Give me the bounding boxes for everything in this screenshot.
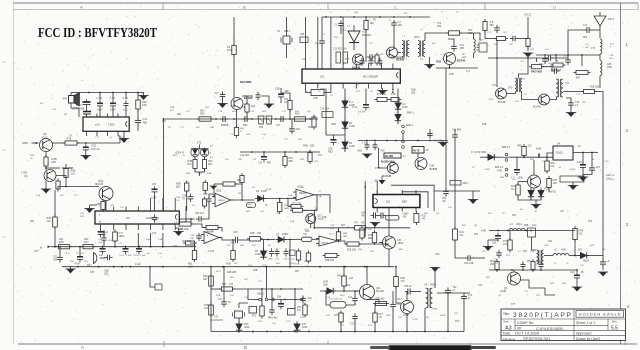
supply marker above 555 xyxy=(379,176,386,185)
wire xyxy=(89,205,91,209)
wire xyxy=(232,240,234,251)
svg-text:+: + xyxy=(207,234,209,238)
wire xyxy=(376,212,378,213)
svg-text:414B: 414B xyxy=(266,189,272,191)
svg-text:R6B: R6B xyxy=(303,145,308,148)
wire Q11 emitter xyxy=(367,300,379,304)
svg-text:1R1: 1R1 xyxy=(284,101,289,104)
IC U3 bottom pins xyxy=(101,224,176,230)
wire xyxy=(395,267,397,277)
svg-text:VR;: VR; xyxy=(474,225,478,227)
svg-text:R6Q: R6Q xyxy=(337,275,342,278)
wire xyxy=(556,55,558,61)
wire xyxy=(150,267,155,287)
svg-text:1Q: 1Q xyxy=(109,137,112,139)
wire xyxy=(280,300,282,302)
wire xyxy=(366,227,411,229)
svg-text:R44 1Q3: R44 1Q3 xyxy=(182,241,192,243)
svg-text:R25: R25 xyxy=(200,113,205,116)
svg-text:4(R): 4(R) xyxy=(561,249,566,252)
svg-text:3Q62: 3Q62 xyxy=(556,151,563,155)
wire xyxy=(513,270,515,272)
svg-text:C4B2: C4B2 xyxy=(267,259,273,261)
wire xyxy=(398,52,402,54)
svg-text:1B62: 1B62 xyxy=(398,242,404,245)
svg-text:Filename: Filename xyxy=(503,337,516,341)
svg-text:9015: 9015 xyxy=(42,135,48,139)
wire xyxy=(473,53,475,58)
diode D12 xyxy=(294,321,300,332)
svg-text:1B2: 1B2 xyxy=(257,232,262,235)
svg-text:Q1?: Q1? xyxy=(397,298,402,301)
svg-text:1B2: 1B2 xyxy=(104,272,109,275)
wire xyxy=(279,199,281,203)
svg-text:VR;: VR; xyxy=(436,213,440,215)
wire xyxy=(374,322,376,332)
ground xyxy=(377,91,387,96)
svg-text:C2B: C2B xyxy=(218,111,223,113)
svg-text:T2D1: T2D1 xyxy=(108,123,115,127)
LED D9 xyxy=(260,248,266,259)
svg-text:3Q62: 3Q62 xyxy=(570,169,576,171)
wire xyxy=(163,119,165,211)
wire xyxy=(90,204,98,206)
wire xyxy=(509,231,511,241)
svg-text:1K1B: 1K1B xyxy=(294,264,300,266)
svg-text:1R2: 1R2 xyxy=(508,87,513,90)
svg-text:R415 NB5: R415 NB5 xyxy=(531,71,543,74)
svg-text:R4B: R4B xyxy=(250,232,255,235)
wire xyxy=(602,95,604,256)
svg-text:R?B: R?B xyxy=(553,180,558,182)
svg-text:4B4: 4B4 xyxy=(267,162,272,165)
svg-text:R1B: R1B xyxy=(288,195,293,197)
svg-text:D: D xyxy=(553,4,556,9)
capacitor C24 xyxy=(83,99,91,108)
svg-text:BAT1-1: BAT1-1 xyxy=(502,146,511,149)
res R92 xyxy=(531,259,535,272)
svg-text:C4B: C4B xyxy=(158,239,163,241)
wire xyxy=(343,286,345,291)
svg-text:SMP: SMP xyxy=(331,124,336,126)
wire xyxy=(186,191,188,211)
svg-text:e1C: e1C xyxy=(95,123,100,127)
svg-text:1B1: 1B1 xyxy=(370,22,375,25)
svg-text:Q1Q: Q1Q xyxy=(304,229,309,231)
wire xyxy=(321,17,323,38)
svg-text:TC2B: TC2B xyxy=(412,319,418,321)
wire xyxy=(320,331,464,333)
wire xyxy=(392,309,394,332)
svg-text:R4B 22B: R4B 22B xyxy=(227,272,237,274)
wire xyxy=(112,93,114,101)
wire xyxy=(137,93,139,98)
svg-text:22Q: 22Q xyxy=(84,261,88,263)
wire xyxy=(460,33,481,40)
svg-text:LM324: LM324 xyxy=(321,243,328,245)
wire xyxy=(284,239,295,241)
svg-text:2R2: 2R2 xyxy=(527,261,532,263)
svg-text:5R2: 5R2 xyxy=(200,110,205,113)
svg-text:X?AL: X?AL xyxy=(320,88,326,91)
svg-text:C1B: C1B xyxy=(609,55,614,57)
svg-text:U2:B: U2:B xyxy=(216,191,222,193)
svg-text:4.8V: 4.8V xyxy=(22,141,28,145)
wire xyxy=(397,110,399,115)
svg-text:4.8V: 4.8V xyxy=(481,230,486,233)
res R103 xyxy=(494,37,508,41)
svg-text:SC?: SC? xyxy=(479,40,484,42)
ground xyxy=(424,65,434,70)
svg-text:R91: R91 xyxy=(188,264,193,266)
svg-text:BAT: BAT xyxy=(500,176,505,179)
svg-text:X1B: X1B xyxy=(313,97,318,100)
svg-text:RT1: RT1 xyxy=(252,316,257,318)
svg-text:223: 223 xyxy=(528,145,533,148)
svg-text:C61: C61 xyxy=(492,243,497,245)
svg-text:R7B: R7B xyxy=(216,295,221,297)
crystal X1B below U1 xyxy=(311,90,324,96)
wire xyxy=(573,152,598,154)
svg-text:1B4: 1B4 xyxy=(30,221,35,223)
wire xyxy=(344,129,346,142)
svg-text:1B4: 1B4 xyxy=(53,259,58,262)
svg-text:C72: C72 xyxy=(350,324,355,326)
wire xyxy=(243,96,248,104)
ceramic filter CF1 xyxy=(258,116,264,124)
svg-text:R2B: R2B xyxy=(170,107,175,109)
wire xyxy=(434,268,436,289)
svg-text:R?2: R?2 xyxy=(588,221,593,223)
wire xyxy=(289,110,291,120)
svg-text:A: A xyxy=(81,345,84,350)
wire xyxy=(496,40,498,87)
svg-text:BC54B: BC54B xyxy=(533,106,541,109)
svg-text:P62: P62 xyxy=(381,151,386,153)
svg-text:473: 473 xyxy=(401,280,406,283)
wire xyxy=(417,153,419,158)
svg-text:D1?: D1? xyxy=(302,324,307,326)
wire xyxy=(54,227,56,247)
svg-text:C:\FILES\3820\: C:\FILES\3820\ xyxy=(536,326,564,331)
svg-text:J1-C: J1-C xyxy=(329,234,334,236)
svg-text:FCC ID : BFVTFY3820T: FCC ID : BFVTFY3820T xyxy=(38,25,157,40)
svg-text:27Q: 27Q xyxy=(503,244,508,246)
svg-text:R?B: R?B xyxy=(590,245,595,247)
wire xyxy=(365,89,367,102)
wire xyxy=(79,247,81,254)
svg-text:VR;: VR; xyxy=(422,218,426,221)
ground xyxy=(65,269,75,274)
wire xyxy=(46,167,60,169)
diode D13 xyxy=(236,321,242,332)
wire xyxy=(397,121,399,124)
svg-text:4R2: 4R2 xyxy=(398,24,403,27)
wire xyxy=(553,55,568,58)
wire xyxy=(434,190,480,192)
wire xyxy=(346,303,355,305)
wire xyxy=(236,110,238,128)
wire xyxy=(340,290,360,292)
ground xyxy=(41,189,51,194)
connector box left xyxy=(477,43,488,52)
svg-text:C31 BB3: C31 BB3 xyxy=(452,130,462,132)
wire xyxy=(199,172,201,176)
wire xyxy=(518,181,528,183)
wire xyxy=(326,134,345,136)
svg-text:C.B: C.B xyxy=(490,22,494,24)
wire xyxy=(340,28,342,34)
wire xyxy=(261,239,276,241)
svg-text:R?9: R?9 xyxy=(503,241,508,243)
border frame bottom line xyxy=(18,343,637,345)
wire xyxy=(495,156,504,158)
svg-text:A: A xyxy=(80,4,83,9)
wire Q8 emitter to rail xyxy=(388,249,390,267)
svg-text:C8A: C8A xyxy=(435,253,440,256)
cap C102 xyxy=(494,25,500,33)
svg-text:1B?: 1B? xyxy=(173,246,178,248)
svg-text:Size: Size xyxy=(503,320,509,324)
svg-text:1B3: 1B3 xyxy=(300,33,305,36)
svg-text:C43: C43 xyxy=(102,234,107,237)
wire xyxy=(375,303,387,305)
svg-text:6B2: 6B2 xyxy=(368,237,373,240)
wire xyxy=(517,182,519,185)
wire xyxy=(354,321,356,332)
wire xyxy=(550,97,557,100)
wire xyxy=(317,17,319,64)
wire xyxy=(190,243,195,251)
wire xyxy=(527,47,529,52)
wire xyxy=(378,148,387,168)
wire xyxy=(326,291,330,305)
wire xyxy=(261,289,263,306)
svg-text:R13 NM2: R13 NM2 xyxy=(240,80,252,84)
svg-text:2.2uF: 2.2uF xyxy=(151,198,157,200)
bold boxed crystal label xyxy=(384,153,401,158)
wire xyxy=(320,290,340,292)
svg-text:555: 555 xyxy=(402,200,407,204)
wire xyxy=(354,291,356,296)
ground xyxy=(438,143,448,148)
svg-text:R27: R27 xyxy=(188,163,193,166)
svg-text:QQ3: QQ3 xyxy=(188,266,194,268)
wire xyxy=(364,181,366,237)
diode D1 large xyxy=(348,31,360,43)
svg-text:R17: R17 xyxy=(84,241,89,244)
wire xyxy=(487,240,489,247)
capacitor C24b lower plates xyxy=(83,112,91,115)
svg-text:4R2B: 4R2B xyxy=(430,284,436,287)
wire to Q8 base xyxy=(359,243,389,245)
svg-text:49.?B: 49.?B xyxy=(413,149,420,152)
wire xyxy=(454,140,456,229)
wire xyxy=(521,280,546,288)
svg-text:U3: U3 xyxy=(126,216,130,220)
svg-text:C84: C84 xyxy=(277,297,282,299)
svg-text:C6B: C6B xyxy=(524,225,529,227)
wire xyxy=(280,88,282,91)
wire xyxy=(599,54,601,60)
svg-text:T2C: T2C xyxy=(303,234,308,236)
svg-text:D1B: D1B xyxy=(323,284,328,287)
antenna ANT1 xyxy=(594,12,606,38)
wire 555 pin to Q8 xyxy=(388,212,390,237)
svg-text:224: 224 xyxy=(204,307,209,310)
bottom edge scan smudge xyxy=(388,345,472,350)
left margin tick 3 xyxy=(2,236,6,238)
svg-text:VR;: VR; xyxy=(460,234,464,237)
crystal XT2 xyxy=(249,307,257,314)
wire xyxy=(542,67,553,71)
svg-text:MB1 4B3: MB1 4B3 xyxy=(268,318,278,320)
wire xyxy=(204,190,206,194)
svg-text:4B1: 4B1 xyxy=(523,251,528,253)
wire xyxy=(472,191,474,200)
ground xyxy=(483,247,493,252)
svg-text:2B6A: 2B6A xyxy=(119,235,125,238)
svg-text:47uF: 47uF xyxy=(75,263,81,266)
wire xyxy=(191,148,209,150)
svg-text:ANT1: ANT1 xyxy=(608,17,615,21)
wire xyxy=(125,110,127,117)
wire xyxy=(442,141,444,143)
wire xyxy=(329,195,331,213)
svg-text:14.7uF: 14.7uF xyxy=(358,111,366,114)
wire xyxy=(62,266,394,268)
LED DL1 xyxy=(528,188,534,199)
svg-text:C1Q: C1Q xyxy=(610,179,615,181)
svg-text:RPB: RPB xyxy=(579,231,584,233)
box top right power xyxy=(560,176,584,182)
wire xyxy=(533,188,535,190)
wire xyxy=(510,156,553,158)
svg-text:SMP-1: SMP-1 xyxy=(407,112,415,115)
svg-text:C7A 12A: C7A 12A xyxy=(320,108,330,111)
wire drop to rail xyxy=(289,240,291,267)
svg-text:220: 220 xyxy=(59,238,64,241)
svg-text:C54: C54 xyxy=(308,298,313,300)
svg-text:1/74R: 1/74R xyxy=(484,169,490,171)
wire xyxy=(271,289,273,307)
svg-text:414B: 414B xyxy=(402,107,408,109)
svg-text:12A: 12A xyxy=(462,56,467,59)
wire xyxy=(191,224,206,228)
svg-text:C6B: C6B xyxy=(544,245,549,247)
wire xyxy=(583,172,592,174)
svg-text:4B4: 4B4 xyxy=(490,25,495,27)
svg-text:C4?: C4? xyxy=(152,184,157,186)
svg-text:R1B 51B: R1B 51B xyxy=(590,87,600,89)
svg-text:4R(1): 4R(1) xyxy=(463,183,469,185)
svg-text:Date:: Date: xyxy=(503,332,511,336)
ground xyxy=(572,287,582,292)
wire xyxy=(324,89,331,93)
svg-text:R2B: R2B xyxy=(30,155,35,157)
svg-text:272: 272 xyxy=(229,283,234,286)
wire Q5 collector to R28 xyxy=(53,142,66,144)
svg-text:VR;: VR; xyxy=(403,215,407,218)
wire xyxy=(45,166,47,170)
svg-text:1R5: 1R5 xyxy=(460,47,465,50)
svg-text:C-12: C-12 xyxy=(352,107,358,109)
svg-text:R?.1 1B4: R?.1 1B4 xyxy=(292,203,302,205)
wire T5a to Q22 xyxy=(522,92,539,100)
wire xyxy=(248,296,259,300)
wire xyxy=(85,153,87,156)
cap C104 xyxy=(510,36,518,42)
ground xyxy=(362,154,372,159)
wire xyxy=(488,240,498,241)
svg-text:C13 R22 104: C13 R22 104 xyxy=(333,49,347,51)
IC U5 top pins xyxy=(87,114,119,118)
wire xyxy=(284,152,286,156)
ground xyxy=(370,223,380,228)
svg-text:NM: NM xyxy=(203,278,207,281)
svg-text:R1A: R1A xyxy=(290,220,295,223)
wire xyxy=(51,246,196,248)
ground xyxy=(264,104,274,109)
wire xyxy=(429,57,431,65)
svg-text:49.1B5: 49.1B5 xyxy=(385,155,394,158)
svg-text:C1A: C1A xyxy=(348,296,353,299)
svg-text:6B3: 6B3 xyxy=(289,160,294,163)
wire xyxy=(57,186,59,189)
svg-text:(C9B): (C9B) xyxy=(500,290,506,293)
ground xyxy=(217,104,227,109)
component 4R1 box above xyxy=(450,181,461,186)
svg-text:8R: 8R xyxy=(64,114,67,116)
svg-text:R2?: R2? xyxy=(162,121,167,123)
IC U1 top pins xyxy=(306,64,393,70)
svg-text:3B2: 3B2 xyxy=(411,92,416,95)
svg-text:R56: R56 xyxy=(551,163,556,165)
svg-text:R?B: R?B xyxy=(246,134,251,136)
svg-text:R4?: R4? xyxy=(512,215,517,217)
wire opamp out right xyxy=(314,194,330,196)
wire xyxy=(560,269,577,271)
wire xyxy=(280,100,282,103)
wire xyxy=(310,224,312,228)
svg-text:C1?: C1? xyxy=(302,59,307,61)
svg-text:C?3: C?3 xyxy=(478,285,483,287)
wire xyxy=(209,194,214,198)
svg-text:VR2: VR2 xyxy=(361,223,366,225)
wire Q12 base xyxy=(396,287,401,304)
svg-text:3820P(T)APP: 3820P(T)APP xyxy=(513,312,572,319)
svg-text:100 uF: 100 uF xyxy=(91,147,100,151)
svg-text:4B3: 4B3 xyxy=(143,120,148,124)
svg-text:R5B: R5B xyxy=(530,159,535,161)
wire xyxy=(374,305,377,313)
svg-text:R5B 1BR: R5B 1BR xyxy=(179,229,189,231)
wire xyxy=(353,43,355,51)
wire xyxy=(105,201,107,212)
wire xyxy=(437,292,470,294)
wire xyxy=(563,91,584,93)
wire xyxy=(114,241,116,247)
wire xyxy=(175,228,178,232)
ground xyxy=(566,113,576,118)
svg-text:1B5: 1B5 xyxy=(123,108,128,112)
wire xyxy=(322,16,430,18)
svg-text:TC2B: TC2B xyxy=(403,315,409,317)
svg-text:C2?: C2? xyxy=(215,93,220,95)
border frame top inner line xyxy=(13,9,638,11)
svg-text:100uF/16B: 100uF/16B xyxy=(72,107,85,111)
wire xyxy=(340,322,342,332)
